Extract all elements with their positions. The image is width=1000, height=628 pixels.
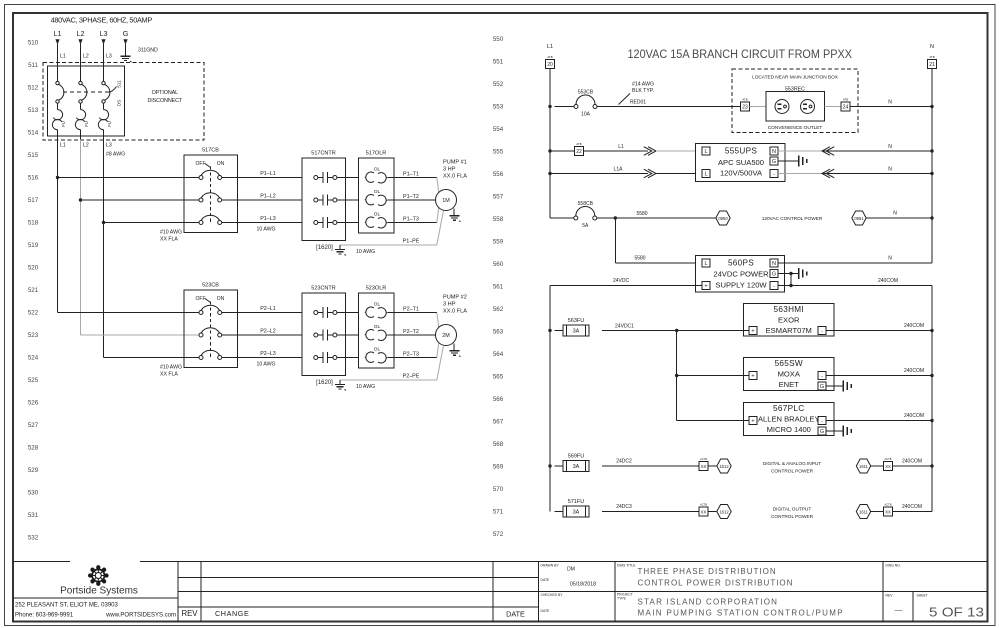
svg-text:+: +	[751, 329, 754, 335]
svg-text:516: 516	[28, 175, 39, 182]
svg-text:DIGITAL & ANALOG INPUT: DIGITAL & ANALOG INPUT	[763, 461, 821, 467]
svg-text:OL: OL	[374, 189, 381, 195]
svg-text:3A: 3A	[573, 329, 580, 335]
svg-text:L1: L1	[54, 29, 62, 38]
svg-text:5 OF 13: 5 OF 13	[929, 606, 984, 620]
svg-text:EXOR: EXOR	[778, 316, 800, 325]
svg-text:LOCATED NEAR MAIN JUNCTION BOX: LOCATED NEAR MAIN JUNCTION BOX	[752, 75, 839, 81]
svg-text:24VDC1: 24VDC1	[615, 324, 634, 330]
svg-text:N: N	[772, 149, 776, 155]
svg-text:21: 21	[929, 62, 935, 68]
svg-text:22: 22	[576, 149, 582, 155]
svg-text:23: 23	[742, 105, 748, 111]
svg-text:10 AWG: 10 AWG	[356, 249, 375, 255]
svg-text:[1620]: [1620]	[316, 380, 333, 386]
svg-text:CONTROL POWER: CONTROL POWER	[771, 469, 814, 475]
svg-text:517CB: 517CB	[202, 148, 219, 154]
svg-text:MAIN PUMPING STATION CONTROL/P: MAIN PUMPING STATION CONTROL/PUMP	[638, 609, 844, 618]
svg-text:OL: OL	[374, 167, 381, 173]
svg-text:524: 524	[28, 355, 39, 362]
svg-text:OL: OL	[374, 302, 381, 308]
svg-text:+: +	[704, 284, 707, 290]
svg-text:552: 552	[493, 81, 504, 88]
svg-text:P2–T1: P2–T1	[403, 307, 419, 313]
svg-text:N: N	[930, 44, 934, 50]
svg-text:P2–T2: P2–T2	[403, 329, 419, 335]
svg-text:ACTB: ACTB	[885, 503, 892, 507]
svg-text:24DC2: 24DC2	[616, 459, 632, 465]
svg-text:#8 AWG: #8 AWG	[106, 152, 125, 158]
svg-text:517CNTR: 517CNTR	[311, 151, 335, 157]
svg-text:L1: L1	[60, 54, 66, 60]
svg-text:www.PORTSIDESYS.com: www.PORTSIDESYS.com	[105, 613, 176, 619]
svg-text:FU: FU	[61, 121, 66, 127]
svg-text:+: +	[751, 374, 754, 380]
svg-text:24: 24	[843, 105, 849, 111]
svg-text:513: 513	[28, 107, 39, 114]
svg-text:568: 568	[493, 441, 504, 448]
svg-text:XX FLA: XX FLA	[160, 237, 178, 243]
svg-text:514: 514	[28, 130, 39, 137]
svg-text:528: 528	[28, 445, 39, 452]
svg-text:SHEET: SHEET	[917, 594, 928, 598]
svg-text:10A: 10A	[581, 112, 591, 118]
svg-text:120VAC CONTROL POWER: 120VAC CONTROL POWER	[762, 216, 823, 222]
svg-text:N: N	[888, 144, 892, 150]
svg-text:P1–T3: P1–T3	[403, 217, 419, 223]
svg-text:L1: L1	[618, 144, 624, 150]
svg-text:570: 570	[493, 486, 504, 493]
svg-text:P2–L2: P2–L2	[260, 329, 276, 335]
svg-text:OPTIONAL: OPTIONAL	[152, 90, 179, 96]
svg-text:SUPPLY 120W: SUPPLY 120W	[715, 281, 767, 290]
svg-text:2M: 2M	[442, 333, 450, 339]
svg-text:DS: DS	[117, 100, 122, 106]
svg-text:ATB: ATB	[576, 142, 581, 146]
svg-text:REV: REV	[181, 609, 198, 618]
svg-text:G: G	[820, 429, 824, 435]
svg-text:511: 511	[28, 62, 38, 69]
svg-text:L1: L1	[60, 143, 66, 149]
svg-text:480VAC, 3PHASE, 60HZ, 50AMP: 480VAC, 3PHASE, 60HZ, 50AMP	[51, 16, 153, 25]
svg-text:0951: 0951	[854, 216, 864, 221]
svg-text:565: 565	[493, 374, 504, 381]
svg-text:-: -	[773, 284, 775, 290]
svg-text:240COM: 240COM	[902, 459, 922, 465]
svg-text:APC SUA500: APC SUA500	[718, 158, 764, 167]
svg-text:[1620]: [1620]	[316, 245, 333, 251]
svg-text:511: 511	[117, 80, 122, 88]
svg-text:-: -	[821, 419, 823, 425]
svg-text:BLK TYP.: BLK TYP.	[632, 88, 654, 94]
svg-text:DATE: DATE	[506, 610, 525, 619]
svg-text:-: -	[821, 374, 823, 380]
svg-text:561: 561	[493, 284, 504, 291]
svg-text:510: 510	[28, 40, 39, 47]
svg-text:3A: 3A	[573, 464, 580, 470]
svg-text:G: G	[772, 272, 776, 278]
svg-text:ATB: ATB	[742, 98, 747, 102]
svg-text:519: 519	[28, 242, 39, 249]
svg-text:FU: FU	[107, 121, 112, 127]
svg-text:240COM: 240COM	[904, 368, 924, 374]
svg-text:1611: 1611	[859, 464, 869, 469]
svg-text:521: 521	[28, 287, 39, 294]
svg-text:ON: ON	[217, 296, 225, 302]
svg-text:10 AWG: 10 AWG	[256, 362, 275, 368]
svg-text:ACTB: ACTB	[885, 457, 892, 461]
svg-text:CHANGE: CHANGE	[215, 609, 249, 618]
svg-text:523: 523	[28, 332, 39, 339]
svg-text:G: G	[772, 159, 776, 165]
svg-text:553CB: 553CB	[578, 89, 594, 95]
svg-text:24VDC POWER: 24VDC POWER	[713, 270, 769, 279]
svg-text:N: N	[888, 256, 892, 262]
svg-text:566: 566	[493, 396, 504, 403]
svg-text:DATE: DATE	[541, 578, 551, 582]
svg-text:THREE PHASE DISTRIBUTION: THREE PHASE DISTRIBUTION	[638, 567, 777, 576]
svg-text:ATB: ATB	[929, 55, 934, 59]
svg-text:10 AWG: 10 AWG	[356, 384, 375, 390]
svg-text:ATB: ATB	[843, 98, 848, 102]
svg-text:558CB: 558CB	[578, 201, 594, 207]
svg-text:1612: 1612	[719, 509, 729, 514]
svg-text:L: L	[704, 149, 707, 155]
svg-text:3A: 3A	[573, 510, 580, 516]
svg-text:5580: 5580	[634, 256, 645, 262]
svg-text:311GND: 311GND	[138, 48, 158, 54]
svg-text:556: 556	[493, 171, 504, 178]
svg-text:5A: 5A	[582, 223, 589, 229]
svg-text:P1–L2: P1–L2	[260, 194, 276, 200]
svg-text:10 AWG: 10 AWG	[256, 227, 275, 233]
svg-text:515: 515	[28, 152, 39, 159]
svg-text:-: -	[821, 329, 823, 335]
svg-text:OL: OL	[374, 347, 381, 353]
svg-text:3 HP: 3 HP	[443, 302, 456, 308]
svg-text:OFF: OFF	[196, 161, 206, 167]
svg-text:555UPS: 555UPS	[725, 147, 758, 156]
svg-text:OL: OL	[374, 324, 381, 330]
svg-text:551: 551	[493, 59, 504, 66]
svg-text:3 HP: 3 HP	[443, 167, 456, 173]
svg-text:RED01: RED01	[630, 100, 646, 106]
svg-text:529: 529	[28, 467, 39, 474]
svg-text:L1: L1	[547, 44, 553, 50]
svg-text:24VDC: 24VDC	[613, 278, 630, 284]
svg-text:G: G	[820, 384, 824, 390]
svg-text:571: 571	[493, 509, 504, 516]
svg-text:PUMP #2: PUMP #2	[443, 295, 467, 301]
svg-text:L1A: L1A	[614, 167, 624, 173]
svg-text:L2: L2	[77, 29, 85, 38]
svg-text:531: 531	[28, 512, 39, 519]
svg-text:24DC3: 24DC3	[616, 504, 632, 510]
svg-text:120VAC 15A BRANCH CIRCUIT FROM: 120VAC 15A BRANCH CIRCUIT FROM PPXX	[628, 49, 853, 61]
svg-text:DISCONNECT: DISCONNECT	[147, 98, 182, 104]
svg-text:517: 517	[28, 197, 39, 204]
svg-text:#10 AWG: #10 AWG	[160, 365, 182, 371]
svg-text:ALLEN BRADLEY: ALLEN BRADLEY	[758, 415, 820, 424]
svg-text:CONVENIENCE OUTLET: CONVENIENCE OUTLET	[768, 125, 823, 131]
svg-text:L3: L3	[100, 29, 108, 38]
svg-text:569: 569	[493, 464, 504, 471]
svg-text:CONTROL POWER DISTRIBUTION: CONTROL POWER DISTRIBUTION	[638, 579, 794, 588]
svg-text:—: —	[895, 606, 903, 615]
svg-text:Portside Systems: Portside Systems	[60, 586, 138, 597]
svg-text:DM: DM	[567, 567, 575, 573]
svg-text:1611: 1611	[859, 509, 869, 514]
svg-text:N: N	[893, 211, 897, 217]
svg-text:ATB: ATB	[547, 55, 552, 59]
svg-text:525: 525	[28, 377, 39, 384]
svg-text:560PS: 560PS	[728, 259, 754, 268]
svg-text:120V/500VA: 120V/500VA	[720, 169, 763, 178]
svg-text:PUMP #1: PUMP #1	[443, 160, 467, 166]
svg-text:523CB: 523CB	[202, 283, 219, 289]
svg-text:XX.0 FLA: XX.0 FLA	[443, 309, 467, 315]
svg-text:P1–T1: P1–T1	[403, 172, 419, 178]
svg-text:567PLC: 567PLC	[773, 404, 804, 413]
svg-text:240COM: 240COM	[904, 413, 924, 419]
svg-text:553: 553	[493, 104, 504, 111]
svg-text:N: N	[888, 100, 892, 106]
svg-text:ACTB: ACTB	[700, 457, 707, 461]
svg-text:554: 554	[493, 126, 504, 133]
svg-text:DRAWN BY: DRAWN BY	[541, 564, 560, 568]
svg-text:#14 AWG: #14 AWG	[632, 82, 654, 88]
svg-text:05/18/2018: 05/18/2018	[570, 582, 596, 588]
svg-text:562: 562	[493, 306, 504, 313]
svg-text:MICRO 1400: MICRO 1400	[767, 425, 811, 434]
svg-text:520: 520	[28, 265, 39, 272]
svg-text:L2: L2	[83, 54, 89, 60]
svg-text:557: 557	[493, 194, 504, 201]
svg-text:ENET: ENET	[779, 380, 800, 389]
svg-text:TYPE: TYPE	[617, 597, 627, 601]
svg-text:559: 559	[493, 239, 504, 246]
svg-text:L3: L3	[106, 54, 112, 60]
svg-text:ON: ON	[217, 161, 225, 167]
svg-text:563: 563	[493, 329, 504, 336]
svg-text:240COM: 240COM	[878, 278, 898, 284]
svg-text:518: 518	[28, 220, 39, 227]
svg-text:OFF: OFF	[196, 296, 206, 302]
svg-text:517OLR: 517OLR	[366, 151, 387, 157]
svg-text:N: N	[888, 167, 892, 173]
svg-text:560: 560	[493, 261, 504, 268]
svg-text:530: 530	[28, 490, 39, 497]
svg-text:526: 526	[28, 400, 39, 407]
svg-text:P2–PE: P2–PE	[403, 374, 420, 380]
svg-text:XX: XX	[701, 510, 707, 515]
svg-text:240COM: 240COM	[902, 504, 922, 510]
svg-text:L2: L2	[83, 143, 89, 149]
svg-text:523OLR: 523OLR	[366, 286, 387, 292]
svg-text:0950: 0950	[718, 216, 728, 221]
svg-text:CONTROL POWER: CONTROL POWER	[771, 514, 814, 520]
svg-text:XX FLA: XX FLA	[160, 372, 178, 378]
svg-text:MOXA: MOXA	[778, 370, 801, 379]
svg-text:563HMI: 563HMI	[774, 305, 804, 314]
svg-text:XX.0 FLA: XX.0 FLA	[443, 174, 467, 180]
svg-text:REV: REV	[886, 594, 894, 598]
svg-text:CHECKED BY: CHECKED BY	[541, 593, 564, 597]
svg-text:DIGITAL OUTPUT: DIGITAL OUTPUT	[773, 507, 812, 513]
svg-text:+: +	[751, 419, 754, 425]
svg-text:ESMART07M: ESMART07M	[766, 326, 812, 335]
svg-text:XX: XX	[885, 464, 891, 469]
svg-text:XX: XX	[701, 464, 707, 469]
svg-text:1M: 1M	[442, 198, 450, 204]
svg-text:#10 AWG: #10 AWG	[160, 230, 182, 236]
svg-text:1612: 1612	[719, 464, 729, 469]
svg-text:STAR ISLAND CORPORATION: STAR ISLAND CORPORATION	[638, 598, 779, 607]
svg-text:P2–L1: P2–L1	[260, 306, 276, 312]
svg-text:N: N	[772, 261, 776, 267]
svg-text:ACTB: ACTB	[700, 503, 707, 507]
svg-text:512: 512	[28, 85, 39, 92]
svg-text:20: 20	[547, 62, 553, 68]
svg-text:565SW: 565SW	[775, 359, 803, 368]
svg-text:563FU: 563FU	[568, 318, 585, 324]
svg-text:OL: OL	[374, 212, 381, 218]
svg-text:572: 572	[493, 531, 504, 538]
svg-text:P1–PE: P1–PE	[403, 239, 420, 245]
svg-text:527: 527	[28, 422, 39, 429]
svg-text:558: 558	[493, 216, 504, 223]
svg-text:P2–L3: P2–L3	[260, 351, 276, 357]
svg-text:555: 555	[493, 149, 504, 156]
svg-text:L3: L3	[106, 143, 112, 149]
svg-text:523CNTR: 523CNTR	[311, 286, 335, 292]
svg-text:5580: 5580	[636, 211, 647, 217]
svg-text:L: L	[704, 172, 707, 178]
svg-text:DWG NO.: DWG NO.	[886, 564, 901, 568]
svg-text:567: 567	[493, 419, 504, 426]
svg-text:-: -	[773, 172, 775, 178]
svg-text:L: L	[704, 261, 707, 267]
svg-text:240COM: 240COM	[904, 323, 924, 329]
svg-text:252 PLEASANT ST, ELIOT ME, 039: 252 PLEASANT ST, ELIOT ME, 03903	[15, 603, 118, 609]
svg-text:P1–L1: P1–L1	[260, 171, 276, 177]
svg-text:571FU: 571FU	[568, 499, 585, 505]
svg-text:DATE: DATE	[541, 609, 551, 613]
svg-text:DWG TITLE: DWG TITLE	[617, 564, 636, 568]
svg-text:569FU: 569FU	[568, 454, 585, 460]
svg-text:G: G	[123, 29, 129, 38]
svg-text:P2–T3: P2–T3	[403, 352, 419, 358]
svg-text:550: 550	[493, 36, 504, 43]
svg-text:P1–T2: P1–T2	[403, 194, 419, 200]
svg-text:Phone: 603-969-9991: Phone: 603-969-9991	[15, 613, 74, 619]
svg-text:P1–L3: P1–L3	[260, 216, 276, 222]
svg-text:564: 564	[493, 351, 504, 358]
svg-text:522: 522	[28, 310, 39, 317]
svg-text:532: 532	[28, 535, 39, 542]
svg-text:FU: FU	[84, 121, 89, 127]
svg-text:XX: XX	[885, 510, 891, 515]
